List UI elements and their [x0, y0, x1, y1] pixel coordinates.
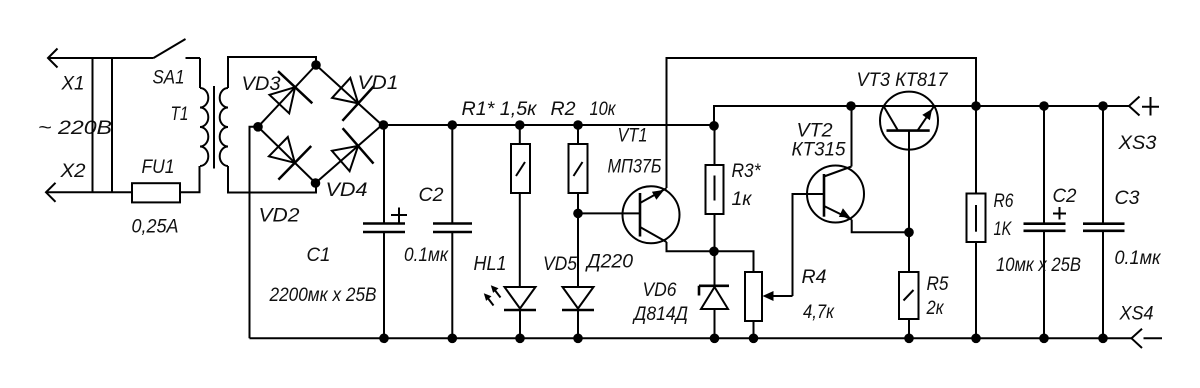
svg-text:XS3: XS3: [1117, 133, 1157, 154]
svg-text:R6: R6: [994, 191, 1014, 212]
switch SA1: [153, 39, 201, 89]
svg-text:2200мк х 25В: 2200мк х 25В: [269, 285, 377, 306]
node VT2 collector / VT3 collector: [846, 101, 856, 111]
svg-text:~ 220В: ~ 220В: [38, 118, 112, 139]
transformer T1 secondary winding: [220, 88, 228, 166]
diode VD2: [259, 137, 312, 227]
transistor VT3: [857, 70, 949, 232]
node rail/R3 corner: [709, 121, 719, 131]
svg-text:C2: C2: [419, 185, 444, 206]
connector pin XS3 (arrow + plus): [1117, 97, 1159, 155]
svg-text:VT3 КТ817: VT3 КТ817: [857, 70, 949, 91]
node C3 bottom: [1098, 334, 1108, 344]
node R6 bottom: [971, 334, 981, 344]
svg-text:VT1: VT1: [618, 126, 648, 147]
svg-text:0.1мк: 0.1мк: [1115, 248, 1162, 269]
node VD5 bottom: [573, 334, 583, 344]
diode VD4: [326, 128, 374, 201]
capacitor C2 (output): [996, 106, 1081, 338]
svg-text:10мк х 25В: 10мк х 25В: [996, 255, 1081, 276]
node HL1 bottom: [515, 334, 525, 344]
diode VD1: [332, 73, 398, 121]
svg-text:VD6: VD6: [643, 280, 677, 301]
resistor R1: [462, 99, 538, 287]
svg-text:1K: 1K: [994, 219, 1013, 240]
node R2/VD5/VT1 base: [573, 209, 583, 219]
svg-text:HL1: HL1: [474, 253, 507, 275]
svg-text:VD3: VD3: [242, 74, 281, 95]
svg-text:T1: T1: [171, 104, 189, 125]
transformer T1 core: [213, 86, 215, 169]
node R5 bottom: [904, 334, 914, 344]
wire VT1 base: [578, 212, 640, 214]
bridge node bottom: [311, 178, 321, 188]
connector pin XS4 (arrow): [1119, 304, 1162, 349]
node C3 top: [1098, 101, 1108, 111]
svg-text:XS4: XS4: [1119, 304, 1154, 325]
wire secondary top to bridge: [228, 57, 316, 88]
wire VT2 collector riser: [851, 106, 853, 167]
svg-text:C3: C3: [1115, 188, 1140, 209]
node R3 bottom / VD6 / R4: [709, 247, 719, 257]
svg-text:R2: R2: [551, 99, 576, 120]
wire VT1 emitter riser to top rail: [667, 58, 977, 188]
capacitor C2 (filter): [404, 125, 472, 338]
node VT3 base / VT2 emitter / R5: [904, 228, 914, 238]
potentiometer R4: [745, 194, 835, 338]
wire secondary bottom to bridge: [228, 166, 316, 193]
bridge diamond sides: [258, 65, 382, 183]
svg-text:4,7к: 4,7к: [803, 302, 835, 323]
node R4 bottom: [749, 334, 759, 344]
node C1 bottom: [379, 334, 389, 344]
svg-text:1к: 1к: [732, 189, 753, 210]
connector mating lines: [93, 58, 113, 192]
node C2 output bottom: [1039, 334, 1049, 344]
resistor R6: [967, 106, 1014, 338]
diode VD3: [242, 71, 313, 113]
resistor R5: [899, 232, 949, 338]
bottom rail: [250, 337, 1132, 339]
wire VT1 collector to node: [667, 242, 715, 251]
svg-text:FU1: FU1: [142, 157, 175, 178]
node C2 bottom: [448, 334, 458, 344]
wire bridge left node to bottom rail: [250, 127, 259, 338]
svg-text:VD1: VD1: [358, 73, 399, 94]
svg-text:SA1: SA1: [153, 68, 185, 89]
positive rail from bridge: [382, 124, 714, 126]
node output wire / top rail corner / R6: [971, 101, 981, 111]
svg-text:R5: R5: [927, 274, 949, 295]
connector pin X2 (arrow): [46, 161, 86, 202]
svg-text:C1: C1: [307, 245, 331, 266]
svg-text:МП37Б: МП37Б: [608, 157, 662, 178]
svg-text:Д814Д: Д814Д: [632, 304, 688, 325]
svg-text:VD5: VD5: [543, 254, 577, 275]
bridge node top: [311, 60, 321, 70]
node C2 top: [448, 120, 458, 130]
capacitor C3: [1083, 106, 1161, 338]
svg-text:X2: X2: [59, 161, 86, 182]
wire X1 to switch: [48, 57, 154, 59]
wire switch to transformer primary: [199, 58, 201, 88]
svg-text:X1: X1: [61, 74, 85, 95]
resistor R3: [706, 125, 762, 251]
zener diode VD6: [632, 251, 729, 338]
node R2 top: [573, 120, 583, 130]
connector pin X1 (arrow): [48, 49, 85, 95]
svg-text:Д220: Д220: [585, 252, 633, 273]
svg-text:0,25А: 0,25А: [132, 217, 179, 238]
rail corner up to output wire: [714, 106, 1129, 125]
resistor R2: [551, 99, 617, 213]
node VD6 bottom: [710, 334, 720, 344]
transistor VT1: [608, 126, 680, 244]
transistor VT2: [792, 121, 910, 233]
svg-text:2к: 2к: [926, 298, 945, 319]
capacitor C1: [269, 125, 407, 338]
wire X2 to fuse: [46, 191, 132, 193]
fuse FU1: [132, 157, 200, 238]
transformer T1 primary winding: [171, 88, 209, 166]
node R1 top: [515, 120, 525, 130]
diode VD5: [543, 213, 633, 338]
LED HL1: [474, 253, 537, 338]
svg-text:R1* 1,5к: R1* 1,5к: [462, 99, 538, 120]
svg-text:R3*: R3*: [732, 161, 762, 182]
svg-text:R4: R4: [802, 267, 827, 288]
svg-text:C2: C2: [1053, 186, 1077, 207]
svg-text:VD2: VD2: [259, 206, 300, 227]
svg-text:КТ315: КТ315: [792, 140, 846, 161]
node rail at C1 (bridge + output): [379, 120, 389, 130]
svg-text:10к: 10к: [590, 99, 617, 120]
node C2 output top: [1039, 101, 1049, 111]
wire node to R4 top: [714, 251, 754, 272]
svg-text:0.1мк: 0.1мк: [404, 245, 449, 266]
svg-text:VD4: VD4: [326, 180, 368, 201]
svg-text:VT2: VT2: [797, 121, 833, 142]
bridge node left: [253, 122, 263, 132]
